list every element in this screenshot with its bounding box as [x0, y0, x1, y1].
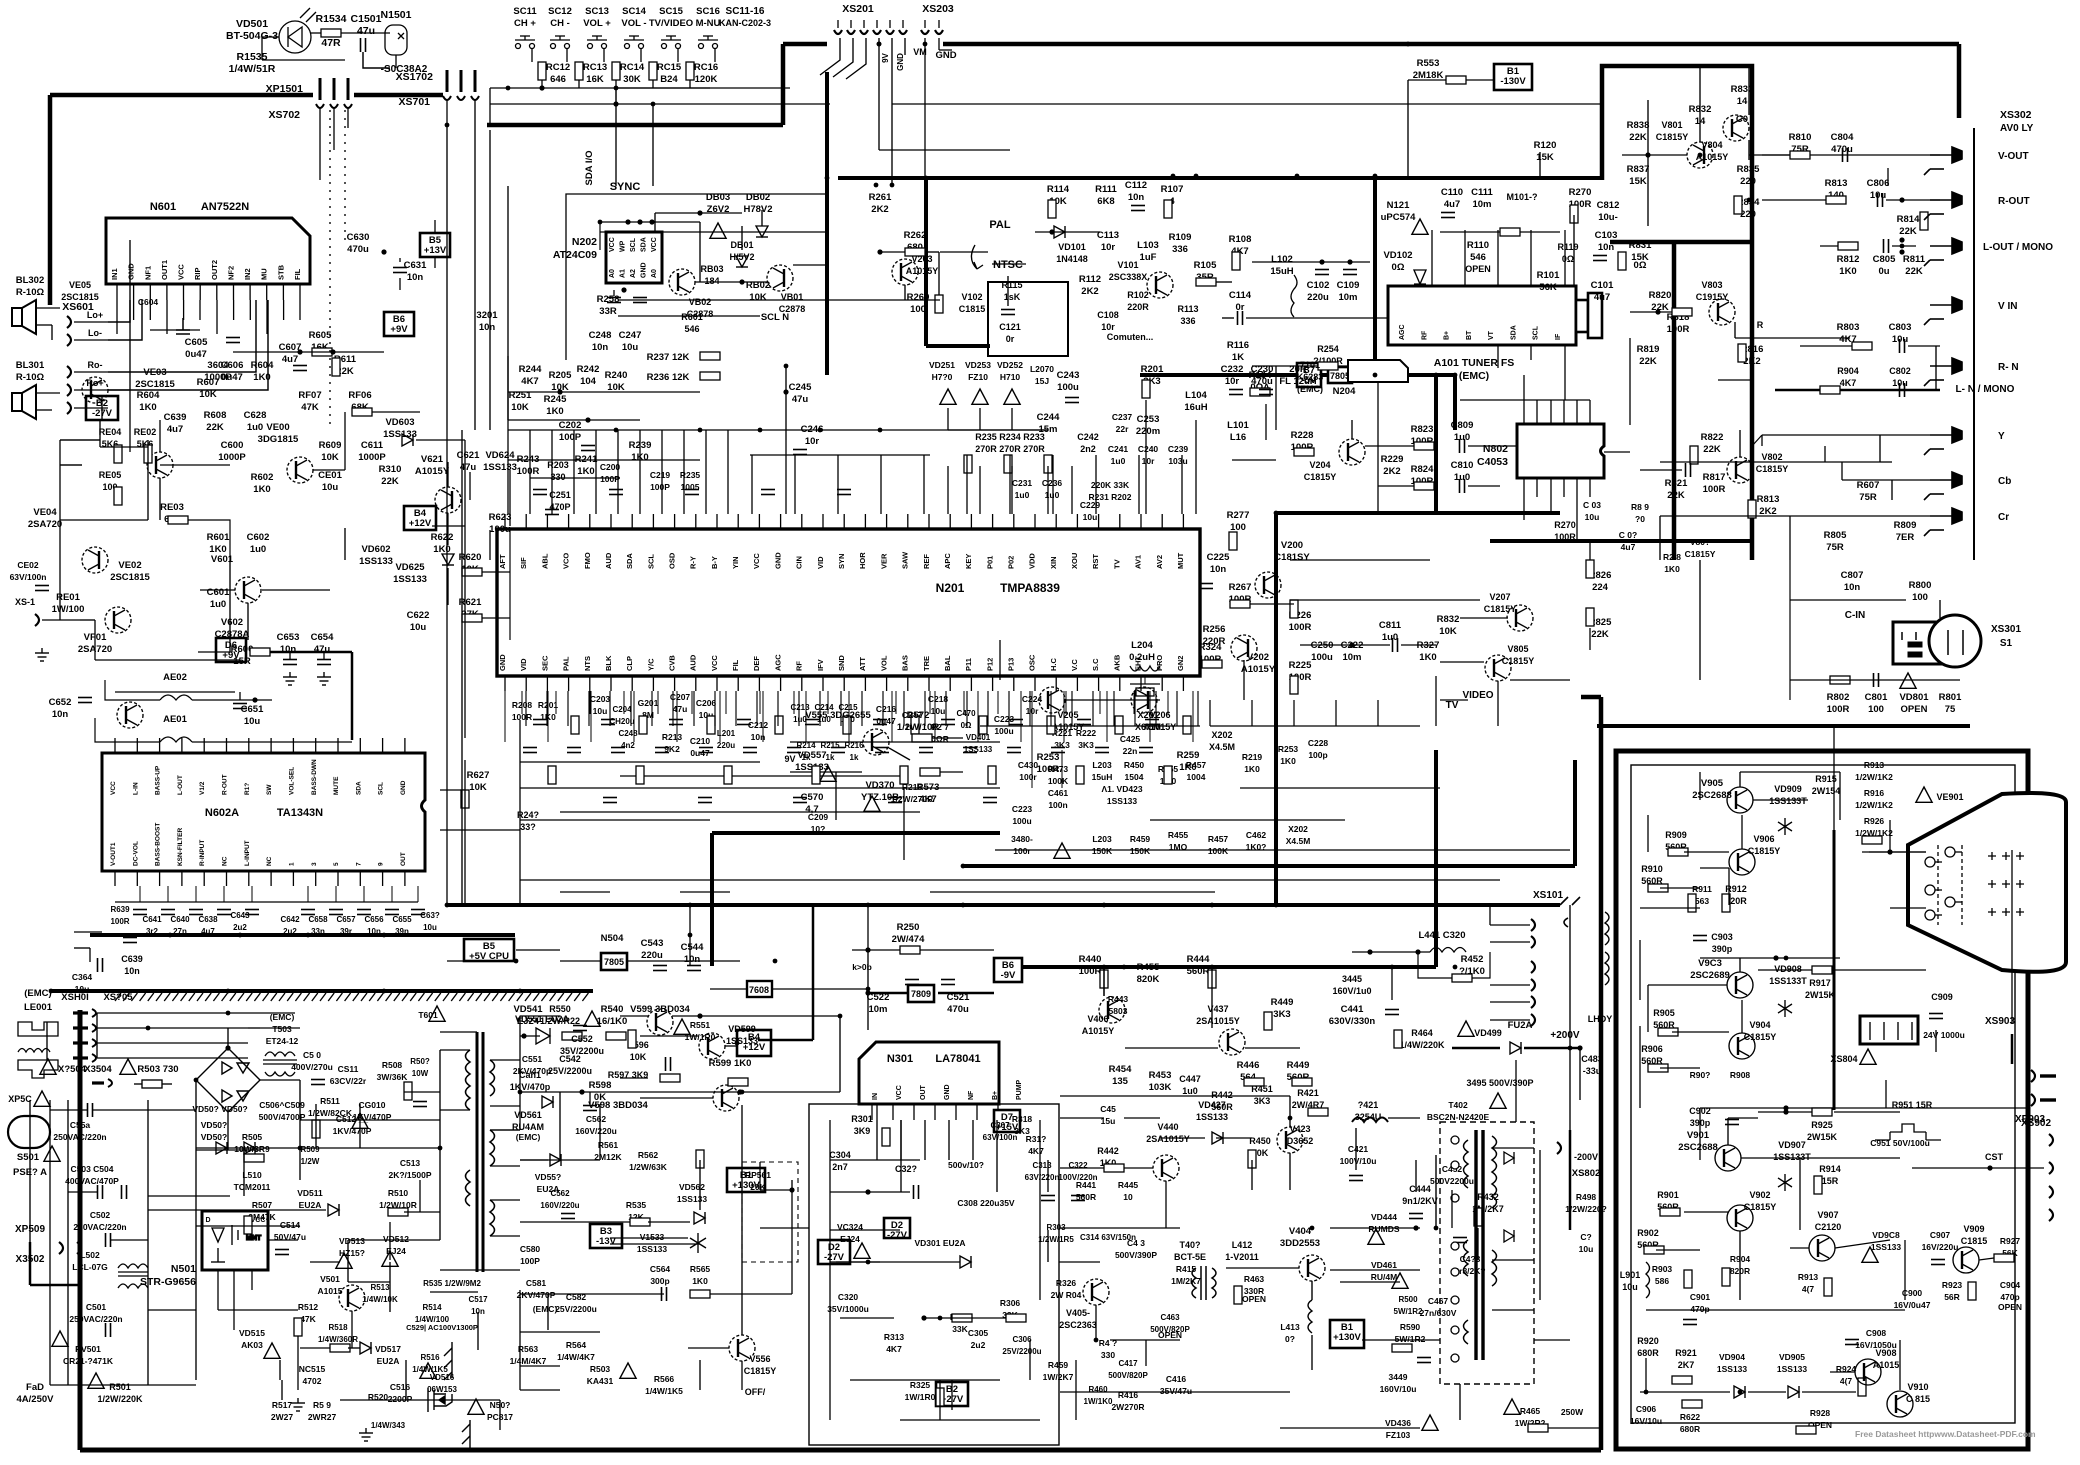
junction crt bot — [1783, 1105, 1788, 1110]
svg-text:KEY: KEY — [964, 554, 973, 569]
resistor under-ic 3 — [812, 766, 820, 784]
svg-text:160V/1u0: 160V/1u0 — [1332, 986, 1371, 996]
svg-text:V907: V907 — [1817, 1210, 1838, 1220]
wire ve col — [129, 240, 131, 390]
svg-text:k>0b: k>0b — [852, 962, 872, 972]
wire ic top drop r x1096 — [1095, 455, 1097, 514]
svg-text:15uH: 15uH — [1270, 266, 1293, 277]
svg-text:V803: V803 — [1701, 280, 1722, 290]
resistor R236 — [700, 372, 720, 380]
svg-text:C114: C114 — [1229, 290, 1252, 301]
wire xs203 pin1 — [924, 38, 926, 280]
svg-text:500V/820P: 500V/820P — [1108, 1371, 1148, 1380]
svg-text:C483: C483 — [1581, 1054, 1603, 1064]
power label B6 -9V — [994, 958, 1022, 982]
svg-text:C1501: C1501 — [351, 13, 382, 25]
wire rm v802 top — [1718, 379, 1752, 381]
wire crt row 908 — [1640, 907, 1700, 909]
svg-text:XS701: XS701 — [398, 96, 430, 108]
svg-text:100K: 100K — [1048, 776, 1069, 786]
transistor V907 — [1809, 1235, 1835, 1261]
transistor V440 — [1153, 1155, 1179, 1181]
svg-text:4(7: 4(7 — [1840, 1376, 1853, 1386]
svg-text:R-Y: R-Y — [689, 556, 698, 569]
svg-text:AT24C09: AT24C09 — [553, 249, 597, 261]
svg-text:R5 9: R5 9 — [313, 1400, 331, 1410]
hatched board separation — [115, 993, 588, 1001]
wire v901 top — [1728, 1117, 1758, 1119]
resistor R802 sym — [1830, 676, 1850, 684]
svg-text:4n2: 4n2 — [621, 741, 635, 750]
capacitor C804 — [1843, 148, 1848, 162]
svg-text:R904: R904 — [1837, 366, 1859, 376]
resistor R597 sym — [660, 1074, 680, 1082]
resistor R254 — [1318, 362, 1338, 370]
svg-text:R205: R205 — [549, 370, 572, 381]
wire la78 p3 — [924, 1120, 926, 1160]
svg-text:CE02: CE02 — [17, 560, 39, 570]
capacitor ta row 4 — [245, 910, 259, 915]
svg-text:R501: R501 — [109, 1382, 131, 1392]
svg-text:C209: C209 — [808, 812, 829, 822]
svg-text:L510: L510 — [242, 1170, 262, 1180]
wire long v x1834b — [1833, 726, 1835, 830]
svg-text:1SS133: 1SS133 — [383, 429, 417, 440]
svg-text:P13: P13 — [1007, 658, 1016, 671]
capacitor r817 cap — [1686, 463, 1691, 477]
crystal X201 — [1130, 684, 1160, 700]
wire x201 col — [1144, 676, 1146, 684]
wire ic bot stub x1198 — [1197, 691, 1199, 726]
svg-text:R228: R228 — [1291, 430, 1314, 441]
wire b5cpu row — [516, 949, 560, 951]
wire vb row — [695, 281, 768, 283]
capacitor above-ic 1 — [609, 490, 623, 495]
diode VD603 — [402, 434, 413, 446]
svg-text:220u: 220u — [1307, 292, 1329, 303]
svg-text:R913: R913 — [1864, 760, 1885, 770]
svg-text:C248: C248 — [589, 330, 612, 341]
svg-text:RB03: RB03 — [700, 264, 723, 274]
wire v801 up — [1699, 100, 1701, 142]
svg-text:C631: C631 — [404, 260, 427, 271]
svg-text:C1815Y: C1815Y — [744, 1366, 777, 1376]
svg-text:R507: R507 — [252, 1200, 273, 1210]
wire re03 to ve02 — [159, 478, 161, 520]
wire xs203 pin2 — [938, 38, 940, 50]
svg-text:22K: 22K — [1667, 490, 1685, 501]
svg-text:4u7: 4u7 — [282, 354, 298, 365]
wire vd625 down — [447, 568, 449, 605]
R951 jumper pair — [1875, 1124, 1941, 1140]
svg-text:L-INPUT: L-INPUT — [244, 840, 251, 866]
wire drop x1436 lower — [1434, 750, 1438, 967]
junction la78 b — [921, 1315, 926, 1320]
wire hdefl row2 — [1124, 1117, 1160, 1119]
wire gnd stub — [939, 49, 952, 51]
svg-text:R911: R911 — [1692, 884, 1712, 894]
wire c4053 down1 — [1523, 497, 1525, 520]
capacitor C654 — [317, 660, 331, 665]
wire ic top drop r x1053 — [1052, 455, 1054, 514]
svg-text:V IN: V IN — [1998, 301, 2017, 312]
wire v203 gnd — [904, 285, 906, 300]
svg-text:AUD: AUD — [604, 552, 613, 569]
wire h vd427 row — [1160, 1137, 1205, 1139]
connector AV jack L-OUT / MONO — [1924, 238, 1962, 266]
connector XS203 pin 2 — [935, 30, 943, 34]
svg-text:1SS133: 1SS133 — [677, 1194, 708, 1204]
connector XP1501 pin 1 — [319, 78, 322, 100]
IC V201 top pin stubs — [505, 514, 1183, 529]
svg-text:FIL: FIL — [293, 268, 302, 280]
wire long v x465 — [464, 760, 466, 905]
svg-text:VCC: VCC — [651, 237, 658, 252]
svg-text:VE03: VE03 — [143, 367, 166, 378]
svg-text:R116: R116 — [1227, 340, 1249, 351]
svg-text:C656: C656 — [364, 915, 384, 924]
svg-text:3201: 3201 — [476, 310, 498, 321]
wire la78 row b — [830, 1261, 960, 1263]
svg-text:X?504: X?504 — [58, 1064, 87, 1075]
junction dot extra 4 — [1406, 42, 1411, 47]
wire ic top drop r x924 — [923, 455, 925, 514]
svg-text:1/2W/220?: 1/2W/220? — [1565, 1204, 1607, 1214]
svg-text:C514: C514 — [280, 1220, 301, 1230]
wire t401 row — [1110, 1339, 1180, 1341]
wire CRT feed bus y726 — [1597, 724, 1970, 728]
wire psu r518 row — [300, 1347, 330, 1349]
svg-text:V206: V206 — [1149, 710, 1170, 720]
wire sec c562 col — [589, 1092, 591, 1104]
svg-text:C2120: C2120 — [1815, 1222, 1842, 1232]
resistor R452 — [1452, 974, 1472, 982]
wire al row2 — [160, 464, 230, 466]
wire lout row — [1820, 245, 1838, 247]
IR receiver N1501 — [385, 25, 407, 55]
diode VD908 sym — [1778, 1000, 1792, 1017]
wire psu row c555b — [92, 1109, 196, 1111]
svg-text:VD515: VD515 — [239, 1328, 265, 1338]
svg-text:RC14: RC14 — [620, 62, 645, 73]
svg-text:CVB: CVB — [668, 655, 677, 671]
wire chroma box top y513 — [1276, 511, 1560, 515]
wire ic top drop x706 — [705, 430, 707, 514]
wire crt row2 — [1660, 887, 1700, 889]
svg-text:C210: C210 — [690, 736, 711, 746]
svg-text:DB02: DB02 — [746, 192, 770, 203]
svg-text:2SC2688: 2SC2688 — [1678, 1142, 1718, 1153]
warning triangle cg010 — [352, 1113, 368, 1128]
svg-text:R229: R229 — [1381, 454, 1404, 465]
capacitor C605 — [176, 318, 190, 334]
svg-text:1K0: 1K0 — [692, 1276, 708, 1286]
connector XP509 b — [77, 1242, 81, 1254]
wire v805 col — [1497, 681, 1499, 726]
wire bus to keyboard — [487, 123, 783, 128]
connector XS201 pin 5 — [886, 30, 894, 34]
wire ic top drop r x1010 — [1009, 455, 1011, 514]
svg-text:10u: 10u — [931, 706, 946, 716]
CRT picture tube — [1908, 793, 2066, 972]
wire 7805 psu in — [560, 960, 601, 962]
svg-text:C218: C218 — [928, 694, 949, 704]
svg-text:R301: R301 — [851, 1114, 873, 1124]
capacitor ta row 0 — [133, 910, 147, 915]
svg-text:10K: 10K — [511, 402, 529, 413]
wire vert box row2 — [830, 1229, 900, 1231]
svg-text:1504: 1504 — [1125, 772, 1144, 782]
wire kb bus ext — [616, 87, 790, 89]
svg-text:BL302: BL302 — [16, 275, 45, 286]
svg-text:YIN: YIN — [731, 556, 740, 569]
transistor V903 — [1727, 972, 1753, 998]
svg-text:VOL -: VOL - — [621, 18, 646, 29]
svg-text:C425: C425 — [1120, 734, 1141, 744]
svg-text:V102: V102 — [961, 292, 982, 302]
IC N202 pin names2 — [609, 237, 658, 252]
svg-text:C605: C605 — [185, 337, 208, 348]
resistor R237 — [700, 352, 720, 360]
svg-text:2W R04: 2W R04 — [1051, 1290, 1082, 1300]
warning triangle vd903 — [1862, 1247, 1878, 1262]
wire ic bot stub x526 — [525, 691, 527, 726]
svg-text:C811: C811 — [1379, 620, 1402, 631]
svg-text:C655: C655 — [392, 915, 412, 924]
svg-text:SCL: SCL — [378, 782, 385, 795]
resistor under-ic 2 — [724, 766, 732, 784]
svg-text:C219: C219 — [650, 470, 671, 480]
transistor V204 — [1339, 439, 1365, 465]
svg-text:R819: R819 — [1637, 344, 1660, 355]
transistor V601 — [235, 577, 261, 603]
svg-text:REF: REF — [922, 554, 931, 569]
svg-text:VCC: VCC — [177, 264, 186, 280]
svg-text:XIN: XIN — [1049, 556, 1058, 569]
junction dot 24 — [773, 959, 778, 964]
wire db02 up — [761, 210, 763, 226]
capacitor row sym 1152 — [1145, 720, 1159, 725]
svg-text:R510: R510 — [388, 1188, 409, 1198]
connector XS601 pin 4 — [67, 384, 71, 396]
IC N301 pin names — [872, 1079, 1023, 1100]
svg-text:10K: 10K — [199, 389, 217, 400]
wire la78 row d — [840, 1317, 894, 1319]
svg-text:VID: VID — [519, 658, 528, 671]
transistor V202 — [1231, 635, 1257, 661]
wire ic top drop x552 — [551, 430, 553, 514]
resistor R440 sym — [1100, 970, 1108, 988]
svg-text:(EMC): (EMC) — [516, 1132, 541, 1142]
wire crt xs904 col — [1885, 1080, 1887, 1108]
svg-text:A2: A2 — [630, 269, 637, 278]
wire psu snub col1 — [243, 1150, 245, 1196]
svg-text:C306: C306 — [1012, 1335, 1032, 1344]
svg-text:C121: C121 — [999, 322, 1021, 332]
junction dot extra 13 — [1453, 965, 1458, 970]
IC N501 internals — [211, 1225, 262, 1262]
power label B4 +12V — [404, 506, 436, 530]
wire v901 up — [1727, 1118, 1729, 1145]
wire ir down — [395, 55, 397, 68]
wire psu row 1282 — [348, 1281, 390, 1283]
svg-text:3K3: 3K3 — [1254, 1096, 1271, 1106]
power label B2 -27V — [86, 396, 118, 420]
svg-text:2KV/470P: 2KV/470P — [517, 1290, 556, 1300]
svg-text:C904: C904 — [2000, 1280, 2021, 1290]
svg-text:7809: 7809 — [911, 989, 931, 999]
resistor row sym 643 — [639, 716, 647, 734]
diode VD909 sym — [1778, 818, 1792, 835]
resistor RC15 — [649, 62, 657, 80]
capacitor C543 sym — [653, 966, 667, 971]
junction sec2 — [737, 1089, 742, 1094]
svg-text:OSD: OSD — [668, 552, 677, 569]
wire sec r563 row — [520, 1365, 560, 1367]
svg-text:100P: 100P — [520, 1256, 540, 1266]
wire ic bot drop x591 — [590, 691, 592, 742]
svg-text:2SC338X: 2SC338X — [1109, 272, 1148, 282]
svg-text:336: 336 — [1172, 244, 1188, 255]
wire crt low row — [1640, 1391, 1730, 1393]
svg-text:OSC: OSC — [1028, 654, 1037, 671]
wire SC11 down — [531, 49, 533, 62]
svg-text:10n: 10n — [684, 954, 701, 965]
wire hdefl row1 — [1060, 1117, 1104, 1119]
junction dot 51 — [1784, 956, 1789, 961]
warning triangle r501 — [88, 1373, 104, 1388]
connector XS203 pin 1 — [921, 30, 929, 34]
wire 200v row — [1452, 1047, 1500, 1050]
svg-text:C512 __: C512 __ — [336, 1114, 368, 1124]
svg-text:D: D — [205, 1217, 210, 1224]
wire SC16 down — [714, 49, 716, 62]
XS201 pin wires — [820, 38, 905, 185]
junction dot extra 12 — [226, 989, 231, 994]
svg-text:V437: V437 — [1207, 1004, 1228, 1014]
resistor R550 — [562, 1032, 582, 1040]
svg-text:7805: 7805 — [604, 957, 624, 967]
svg-text:R270: R270 — [1554, 520, 1576, 530]
svg-text:2W15K: 2W15K — [1807, 1132, 1838, 1142]
wire r620 link — [482, 571, 510, 573]
svg-text:C307: C307 — [990, 1121, 1010, 1130]
svg-text:N504: N504 — [601, 933, 624, 944]
wire mid section corner — [1581, 695, 1601, 700]
svg-text:LHDY: LHDY — [1588, 1014, 1613, 1024]
svg-text:563: 563 — [1695, 896, 1709, 906]
svg-text:VE04: VE04 — [33, 507, 57, 518]
svg-text:N201: N201 — [936, 581, 965, 595]
wire x202 row — [1150, 819, 1345, 821]
wire r824 row — [1378, 485, 1414, 487]
svg-text:R464: R464 — [1411, 1028, 1433, 1038]
junction dot 10 — [1274, 511, 1279, 516]
svg-text:A1: A1 — [620, 269, 627, 278]
svg-text:4K7: 4K7 — [886, 1344, 902, 1354]
svg-text:120K: 120K — [695, 74, 718, 85]
svg-text:400VAC/470P: 400VAC/470P — [65, 1176, 119, 1186]
svg-text:2W27: 2W27 — [271, 1412, 293, 1422]
svg-text:35V/47u: 35V/47u — [1160, 1386, 1192, 1396]
wire led to r1534 — [311, 32, 321, 34]
svg-text:100R: 100R — [1703, 484, 1726, 495]
svg-text:1SS133: 1SS133 — [1717, 1364, 1748, 1374]
junction dot 7 — [924, 176, 929, 181]
wire ic bot stub x1114 — [1113, 691, 1115, 726]
svg-text:APC: APC — [943, 553, 952, 569]
svg-text:22K: 22K — [1591, 629, 1609, 640]
flyback pin 2 — [1451, 1161, 1459, 1169]
svg-text:100P: 100P — [559, 432, 582, 443]
junction dot extra 2 — [1194, 174, 1199, 179]
wire crt inner v1700 — [1699, 1108, 1701, 1160]
capacitor C631 — [393, 268, 407, 273]
wire ic top drop r x752 — [751, 455, 753, 514]
resistor RC14 — [612, 62, 620, 80]
svg-text:C907: C907 — [1930, 1230, 1951, 1240]
wire scl long — [618, 299, 940, 301]
svg-text:BLK: BLK — [604, 655, 613, 671]
wire hout top — [1289, 1096, 1291, 1127]
wire b2 bus — [60, 439, 100, 441]
svg-text:33R: 33R — [599, 306, 617, 317]
wire psu n501 col3 — [251, 1270, 253, 1290]
wire psu row 1240 — [348, 1239, 440, 1241]
svg-text:2K2: 2K2 — [1383, 466, 1400, 477]
wire led down — [261, 37, 263, 60]
IC N301 pin stubs — [872, 1104, 998, 1120]
svg-text:10n: 10n — [1128, 192, 1145, 203]
svg-text:560R: 560R — [1076, 1192, 1096, 1202]
connector XS605 pin 1 — [73, 1011, 88, 1014]
svg-text:RP561: RP561 — [745, 1170, 771, 1180]
wire sec opto row — [520, 1389, 560, 1391]
svg-text:AGC: AGC — [1399, 324, 1406, 340]
svg-text:V406: V406 — [1087, 1014, 1108, 1024]
resistor under-ic 1 — [636, 766, 644, 784]
svg-text:SEC: SEC — [540, 655, 549, 671]
wire psu col 348 — [347, 1240, 349, 1282]
junction 200v — [1577, 1045, 1582, 1050]
svg-text:R201: R201 — [1141, 364, 1164, 375]
svg-text:XS-1: XS-1 — [15, 597, 35, 607]
wire v80 row — [1622, 154, 1687, 156]
svg-text:1SS133T: 1SS133T — [1769, 796, 1807, 806]
wire XS601 pin 4 — [74, 389, 108, 391]
resistor R449 sym — [1292, 1078, 1312, 1086]
wire N601 pin 4 down — [166, 300, 168, 334]
svg-text:R325: R325 — [910, 1380, 931, 1390]
svg-text:VCC: VCC — [752, 553, 761, 569]
svg-text:C 03: C 03 — [1583, 500, 1601, 510]
svg-text:XS101: XS101 — [1533, 890, 1563, 901]
svg-text:R445: R445 — [1118, 1180, 1139, 1190]
svg-text:GND: GND — [935, 50, 956, 61]
svg-text:FZ10: FZ10 — [968, 372, 988, 382]
svg-text:R535: R535 — [626, 1200, 647, 1210]
wire 7608 in — [710, 988, 747, 990]
capacitor C639 sym — [123, 938, 137, 943]
wire XP1501 pin 1 down — [319, 108, 321, 128]
wire ic bot stub x631 — [630, 691, 632, 726]
svg-text:2u2: 2u2 — [971, 1340, 986, 1350]
CRT board outer box — [1616, 751, 2028, 1449]
wire v599 wire — [640, 1035, 699, 1037]
wire ta cap drop 336 — [335, 886, 337, 902]
wire audio bottom bus y935 — [90, 933, 515, 937]
wire db02 top row — [655, 212, 742, 214]
